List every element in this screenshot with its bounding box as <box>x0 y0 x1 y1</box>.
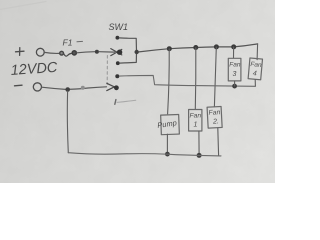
SW1 pole1 bottom throw contact <box>116 61 120 65</box>
terminal O negative <box>33 83 41 91</box>
wire fan3 top drop <box>233 47 235 58</box>
SW1 pole1 top throw contact <box>116 36 120 40</box>
wire top bus <box>139 44 258 52</box>
wire fan2 bottom drop <box>217 128 220 156</box>
fuse F1 <box>60 51 77 56</box>
node fan3 top <box>231 44 236 49</box>
SW1 pole1 wiper arrowhead <box>111 49 122 56</box>
svg-text:Fan: Fan <box>250 61 262 69</box>
junction dot on + wire <box>95 50 99 54</box>
fan1 box <box>189 110 202 132</box>
node fan1 bottom <box>197 153 202 158</box>
SW1 pole2 bottom stub contact <box>115 100 116 105</box>
wire dot to wiper arrow <box>99 51 115 53</box>
wire fan4 top drop <box>256 44 259 60</box>
paper mottle <box>0 0 275 183</box>
SW1 pole2 common node <box>114 85 119 90</box>
wire pump top drop <box>168 49 170 114</box>
fan2 box <box>207 106 222 128</box>
wire left return vertical <box>66 91 69 153</box>
node pump top <box>167 46 172 51</box>
wire - terminal to pole2 wiper <box>42 87 107 90</box>
SW1 pole2 top throw contact <box>115 74 119 78</box>
node fan1 top <box>193 45 198 50</box>
node - (negative terminal minus sign) <box>15 84 23 87</box>
wire pump bottom drop <box>166 134 168 154</box>
svg-text:Fan: Fan <box>208 109 220 117</box>
svg-text:Fan: Fan <box>190 113 202 120</box>
node fan2 top <box>214 44 219 49</box>
wire + terminal to fuse <box>45 52 59 53</box>
node minus-wire junction <box>65 87 70 92</box>
svg-text:F1: F1 <box>63 38 73 48</box>
wire pole2 stub <box>117 100 136 102</box>
wire fan1 top drop <box>194 48 197 110</box>
pump box <box>156 114 179 134</box>
svg-text:1: 1 <box>194 122 198 129</box>
wire fan4 bottom drop <box>254 80 256 87</box>
svg-text:12VDC: 12VDC <box>10 60 58 79</box>
svg-text:4: 4 <box>252 70 257 77</box>
wire pole1 throws C-link <box>119 38 136 63</box>
SW1 pole1 common node <box>117 50 122 55</box>
wire bottom bus <box>68 153 221 156</box>
node switch output <box>135 50 139 54</box>
fan3 box <box>228 58 241 81</box>
svg-text:3: 3 <box>233 71 237 78</box>
node + (positive terminal plus sign) <box>16 48 25 56</box>
faint paper crease top-left <box>0 2 46 10</box>
node fan3 bottom <box>232 84 237 89</box>
F1 dash <box>77 40 83 42</box>
svg-text:2.: 2. <box>212 118 219 125</box>
wire fuse to switch <box>77 52 95 53</box>
SW1 pole2 wiper arrowhead <box>107 83 116 90</box>
wire fan2 top drop <box>214 47 216 107</box>
wire fan3 bottom drop <box>234 81 236 86</box>
node pump bottom <box>165 152 170 157</box>
terminal O positive <box>36 48 44 56</box>
svg-text:Pump: Pump <box>157 118 178 130</box>
fan4 box <box>248 58 262 80</box>
SW1 ganged linkage dashed line <box>106 56 108 85</box>
wire fan1 bottom drop <box>198 131 200 154</box>
blob on minus wire <box>81 86 85 90</box>
svg-text:Fan: Fan <box>229 62 241 69</box>
wire pole2 contact to fans 3-4 return <box>119 75 255 86</box>
svg-text:SW1: SW1 <box>109 22 129 32</box>
